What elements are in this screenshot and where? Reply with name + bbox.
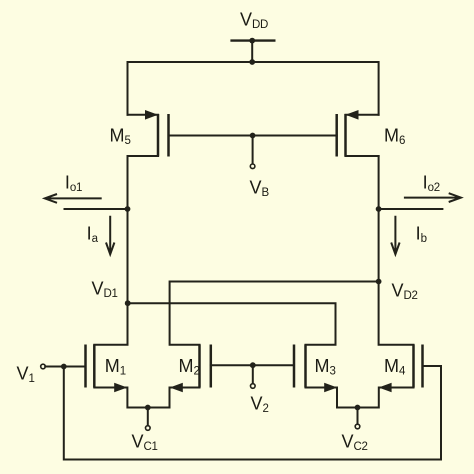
wire M1 source to tail node: [94, 388, 148, 408]
junction dot V2 node: [250, 362, 256, 368]
transistor M1 gate bar: [84, 345, 87, 388]
terminal circle V1: [41, 364, 46, 369]
transistor M2 channel bar: [198, 345, 201, 388]
wire Io2 output stub: [379, 208, 443, 210]
arrow M1 source (NMOS): [114, 383, 127, 393]
wire V1 terminal to M1 gate: [45, 366, 85, 368]
wire M5 source lead: [128, 114, 159, 116]
wire top supply rail: [128, 62, 379, 115]
transistor M2 gate bar: [210, 345, 213, 388]
junction dot VDD bar: [249, 38, 255, 44]
arrow Io2 current: [404, 193, 461, 202]
terminal circle VC1: [146, 426, 151, 431]
transistor M4 channel bar: [412, 345, 415, 388]
terminal circle VB: [250, 164, 255, 169]
junction dot VB gate line: [250, 133, 256, 139]
junction dot VDD rail: [249, 59, 255, 65]
wire left rail M5 drain down to M1: [94, 156, 127, 345]
arrow Io1 current: [45, 194, 102, 203]
wire VC1 stub: [147, 408, 149, 426]
wire M6 drain lead: [346, 155, 379, 157]
wire M4 source to tail node: [358, 388, 414, 408]
wire M3 source to tail node: [306, 388, 358, 408]
transistor M1 channel bar: [93, 345, 96, 388]
junction dot M3-M4 tail node: [355, 405, 361, 411]
wire V2 stub: [252, 365, 254, 383]
transistor M3 channel bar: [304, 345, 307, 388]
wire VDD stub: [251, 41, 253, 62]
terminal circle VC2: [355, 424, 360, 429]
junction dot M1-M2 tail node: [145, 405, 151, 411]
wire Io1 output stub: [65, 208, 128, 210]
wire M5 drain lead: [128, 155, 159, 157]
arrow Ib current: [391, 216, 399, 255]
wire M6 source lead: [346, 114, 379, 116]
junction dot Io2 node: [376, 206, 382, 212]
power VDD symbol bar: [232, 39, 275, 41]
transistor M6 channel bar: [344, 114, 347, 157]
junction dot Io1 node: [125, 206, 131, 212]
wire M2 source to tail node: [148, 388, 200, 408]
wire VC2 stub: [357, 408, 359, 425]
arrow Ia current: [106, 216, 114, 255]
wire gate line M5-M6 (VB net): [169, 135, 337, 137]
transistor M4 gate bar: [421, 345, 424, 388]
arrow M5 source (PMOS): [145, 110, 158, 120]
arrow M3 source (NMOS): [324, 383, 337, 393]
arrow M6 source (PMOS): [346, 110, 359, 120]
junction dot V1 node: [61, 364, 67, 370]
wire right rail M6 drain down to M4: [379, 156, 414, 345]
transistor M6 gate bar: [335, 114, 338, 157]
wire VB stub: [252, 136, 254, 164]
wire node VD1 cross-couple to M3 drain: [128, 303, 336, 345]
wire V1 feed down to bottom rail and M4 gate: [64, 366, 441, 460]
transistor M5 gate bar: [167, 114, 170, 157]
terminal circle V2: [251, 384, 256, 389]
transistor M5 channel bar: [157, 114, 160, 157]
junction dot node VD1: [125, 300, 131, 306]
transistor M3 gate bar: [293, 345, 296, 388]
arrow M4 source (NMOS): [379, 383, 392, 393]
wire gate line M2-M3 (V2 net): [211, 364, 294, 366]
arrow M2 source (NMOS): [170, 383, 183, 393]
wire node VD2 cross-couple to M2 drain: [170, 282, 379, 345]
junction dot node VD2: [376, 279, 382, 285]
